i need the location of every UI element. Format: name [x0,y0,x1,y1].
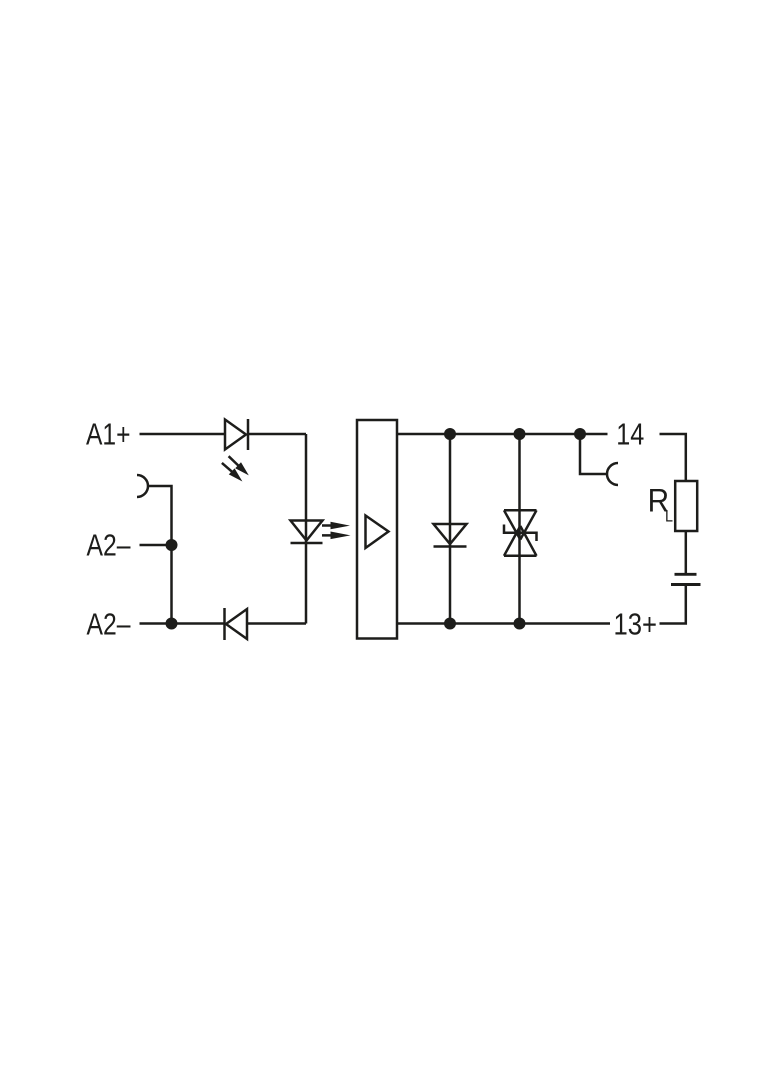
svg-text:A1+: A1+ [86,416,131,451]
wire branch TVS vertical [518,434,521,624]
wire A2 bottom to diode D2 [140,622,225,625]
optocoupler output block U1 [357,420,397,639]
battery / DC source B1 [675,573,697,576]
TVS suppressor diode D4 (bidirectional) [504,510,537,539]
socket contact arc (left, input common) [137,475,148,497]
junction dot bottom rail at D3 [444,618,456,630]
junction dot bottom rail at TVS [514,618,526,630]
wire terminal 14 to load branch [660,434,686,481]
wire RL to battery [685,531,688,573]
junction dot top rail at TVS [514,428,526,440]
wire A2 middle to junction [140,544,172,547]
optocoupler light arrows [322,522,351,539]
socket contact arc (right, output) [607,463,618,485]
wire battery to terminal 13+ [660,586,686,624]
wire arc to left branch corner [148,486,172,624]
wire D2 anode to LED column corner [247,622,306,625]
junction dot top rail at D3 [444,428,456,440]
wire top rail U1 to terminal 14 [397,433,608,436]
wire stub from terminal 14 junction down [580,434,607,474]
phototransistor triangle inside U1 [366,516,389,549]
svg-text:A2–: A2– [87,606,132,641]
svg-text:13+: 13+ [614,607,658,642]
load resistor RL [675,481,697,531]
wire A1+ to diode D1 [140,433,226,436]
junction dot A2 middle [166,539,178,551]
diode D3 (freewheeling, cathode down) [434,524,467,544]
junction dot top rail at contact stub [574,428,586,440]
wire branch D3 vertical [449,434,452,624]
wire LED column vertical (node K) [305,434,308,624]
svg-text:L: L [665,506,673,525]
optocoupler LED (emitter, pointing down) [291,521,323,541]
diode D2 (reverse polarity, cathode left) [223,608,226,640]
svg-text:14: 14 [616,417,644,452]
wire D1 cathode to LED column corner [248,433,306,436]
svg-text:A2–: A2– [87,527,132,562]
wire bottom rail U1 to terminal 13+ [397,622,610,625]
LED D1 (input status LED, anode left) [225,420,246,450]
LED D1 emission arrows [222,456,249,481]
junction dot A2 bottom [166,618,178,630]
